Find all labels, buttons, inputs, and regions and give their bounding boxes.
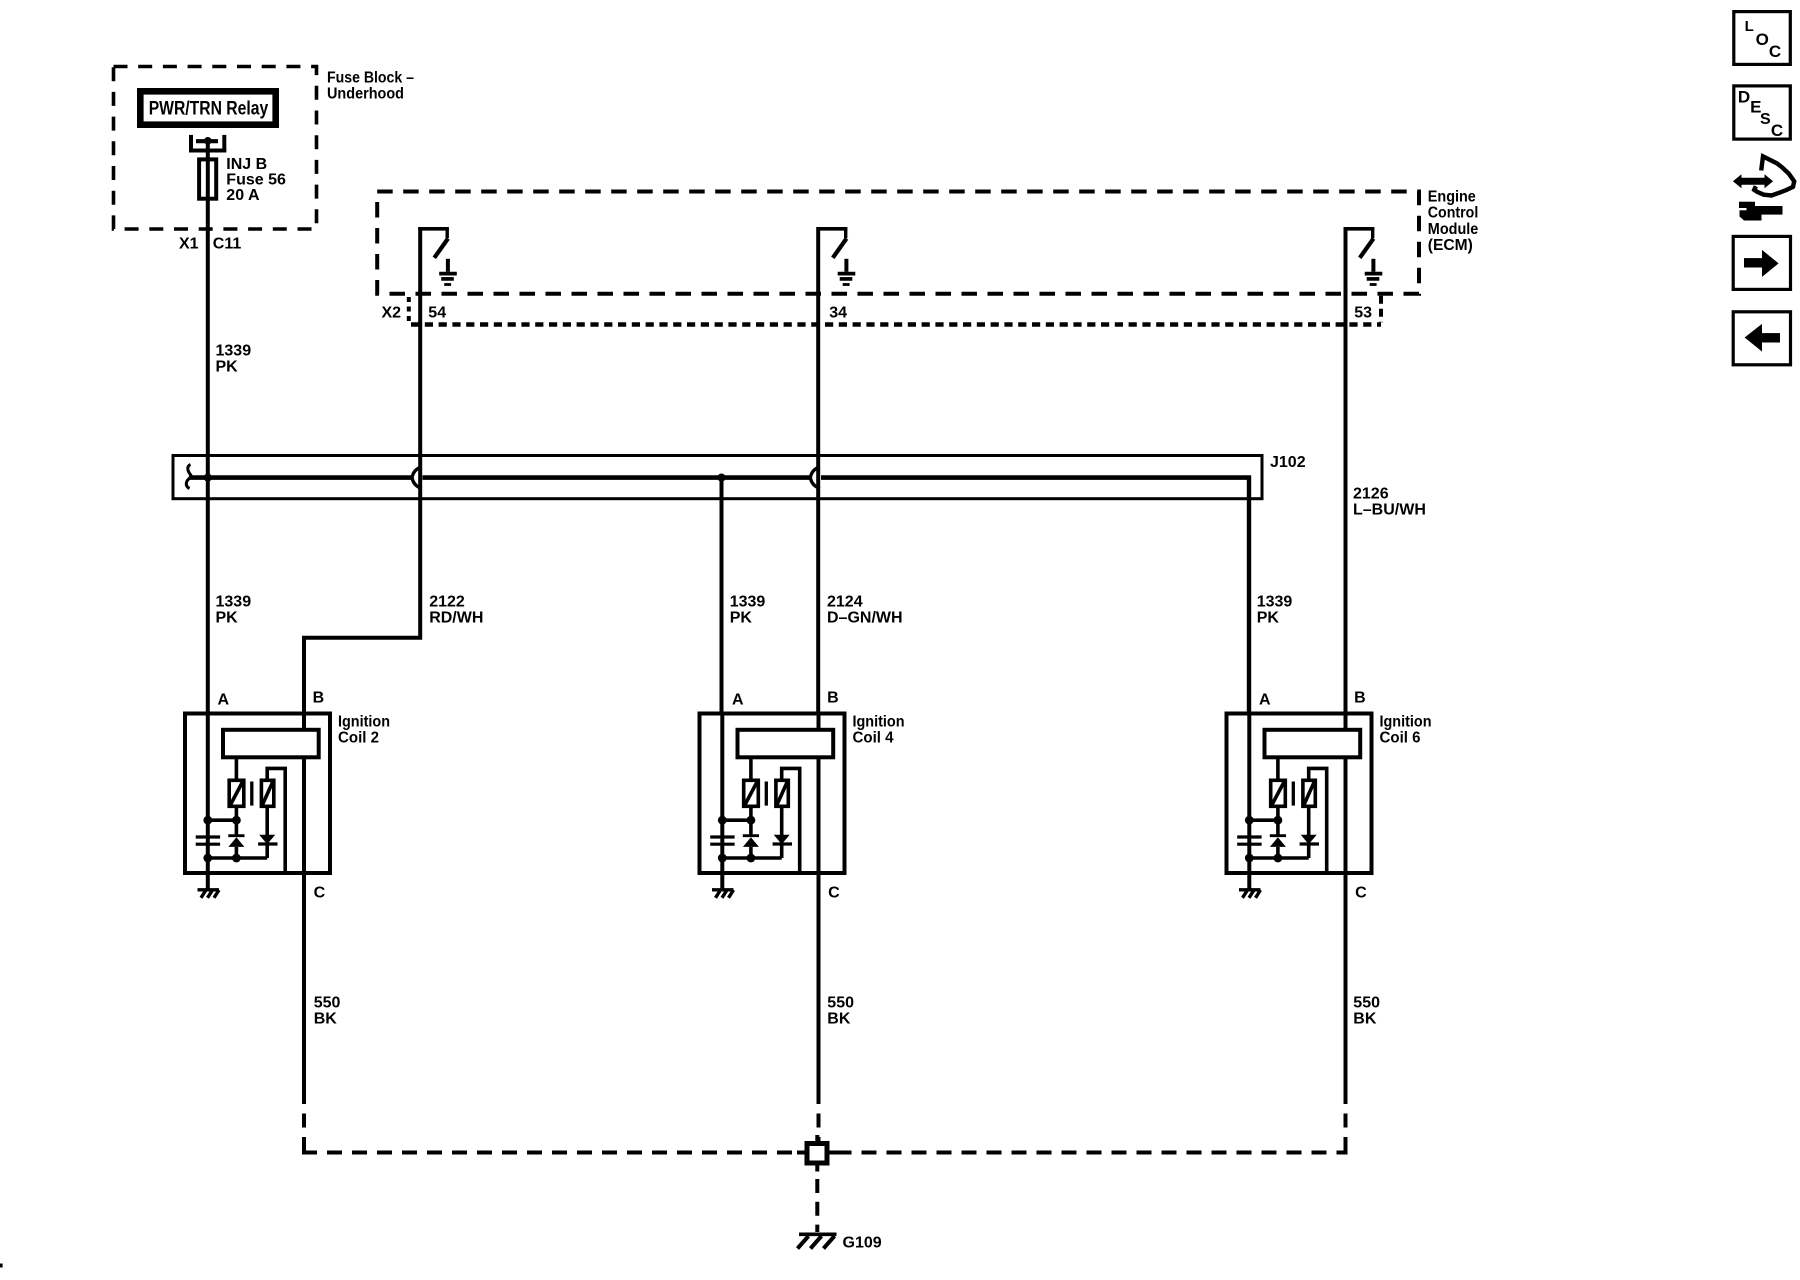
wire 2124 D-GN/WH from ECM pin 34 to coil 4 pin B (816, 227, 820, 713)
svg-text:INJ B: INJ B (226, 156, 267, 173)
wire 550 BK label (coil 4) (827, 995, 854, 1028)
coil 6 pin labels A B C (1259, 689, 1367, 901)
coil 4 primary feed wire (749, 759, 753, 780)
splice bus wire 1339 PK inside J102 (189, 475, 1251, 480)
dashed wire from splice to ground G109 (815, 1179, 819, 1232)
coil 6 junction dots on bottom link (1245, 854, 1254, 863)
svg-text:G109: G109 (843, 1235, 882, 1252)
svg-text:2124: 2124 (827, 594, 863, 611)
wire 1339 PK branch to coil 4 pin A (720, 479, 724, 713)
svg-text:20 A: 20 A (226, 187, 260, 204)
wire label 2124 D-GN/WH (827, 594, 903, 627)
coil 6 secondary winding (1303, 780, 1315, 806)
fuse block box (Fuse Block - Underhood, dashed) (114, 67, 317, 230)
svg-text:1339: 1339 (730, 594, 766, 611)
svg-text:550: 550 (314, 995, 341, 1012)
svg-text:A: A (732, 691, 744, 708)
coil 2 core (250, 782, 253, 806)
svg-text:Ignition: Ignition (338, 714, 390, 731)
icon curved harness outline (1754, 156, 1794, 195)
coil 2 junction dots on link (203, 816, 212, 825)
wire label 1339 PK (upper) (216, 343, 252, 376)
svg-text:A: A (1259, 691, 1271, 708)
svg-text:PK: PK (730, 610, 753, 627)
ECM label Engine Control Module (ECM) (1428, 188, 1479, 254)
coil 2 pin B/C wire through module (302, 712, 306, 1091)
crimp splice chevron at wire 2122 (412, 467, 422, 489)
svg-text:O: O (1756, 30, 1769, 49)
coil 4 primary bottom lead (749, 806, 753, 836)
svg-text:PK: PK (1257, 610, 1280, 627)
svg-text:J102: J102 (1270, 454, 1306, 471)
fuse block label (327, 69, 414, 102)
fuse F56 (INJ B, 20 A) (199, 159, 216, 198)
svg-text:Fuse 56: Fuse 56 (226, 172, 286, 189)
coil 2 primary winding (229, 780, 244, 806)
svg-text:Ignition: Ignition (1380, 714, 1432, 731)
svg-text:C: C (1355, 884, 1367, 901)
connector pin labels X2 / 54 / 34 / 53 (382, 304, 1373, 321)
coil 4 diode D2 (down) (773, 806, 792, 858)
sidebar LOC button (1734, 12, 1791, 65)
coil 4 control module block (738, 730, 834, 758)
svg-text:53: 53 (1354, 304, 1372, 321)
coil 6 bottom link (1249, 856, 1308, 860)
svg-text:BK: BK (1353, 1011, 1377, 1028)
svg-text:L: L (1745, 18, 1754, 35)
ground bus dashed wire (right of splice) (837, 1151, 1348, 1155)
svg-text:C: C (314, 884, 326, 901)
svg-text:54: 54 (428, 304, 446, 321)
svg-text:S: S (1760, 111, 1771, 128)
wire 550 BK dashed drop (coil 4, into splice) (817, 1090, 821, 1141)
svg-text:34: 34 (829, 304, 847, 321)
sidebar DESC button (1734, 86, 1791, 140)
svg-text:550: 550 (1353, 995, 1380, 1012)
coil 4 diode D1 (up) (743, 836, 759, 858)
svg-text:Coil 2: Coil 2 (338, 729, 379, 746)
wire label 1339 PK (coil 6 branch) (1257, 594, 1293, 627)
svg-text:2126: 2126 (1353, 485, 1389, 502)
coil 6 pin A internal wire to ground (1247, 712, 1251, 889)
coil 6 primary bottom lead (1276, 806, 1280, 836)
coil 2 junction dots on bottom link (203, 854, 212, 863)
wire label 2126 L-BU/WH (1353, 485, 1426, 518)
svg-text:550: 550 (827, 995, 854, 1012)
svg-text:Fuse Block –: Fuse Block – (327, 69, 414, 86)
coil 2 bottom link (208, 856, 267, 860)
coil 2 secondary HT lead (267, 768, 285, 871)
wire label 2122 RD/WH (429, 594, 483, 627)
svg-text:BK: BK (314, 1011, 338, 1028)
sidebar forward arrow button (1733, 236, 1790, 289)
ignition coil 6 assembly (1227, 689, 1432, 1090)
svg-text:Ignition: Ignition (853, 714, 905, 731)
coil 2 capacitor (196, 837, 220, 844)
coil 2 primary feed wire (235, 759, 239, 780)
svg-text:C11: C11 (213, 236, 242, 253)
coil 6 control module block (1265, 730, 1361, 758)
coil 4 name label (853, 714, 905, 747)
relay K1 PWR/TRN Relay box (140, 91, 275, 124)
svg-text:D: D (1738, 87, 1750, 106)
svg-text:D–GN/WH: D–GN/WH (827, 610, 903, 627)
splice junction dot (wire 1339 PK from fuse) (204, 474, 212, 482)
splice block J102 outline (173, 456, 1262, 499)
svg-text:PK: PK (216, 359, 239, 376)
svg-text:Module: Module (1428, 221, 1479, 238)
coil 6 junction dots on link (1245, 816, 1254, 825)
ECM low-side driver for pin 53 (1344, 229, 1383, 285)
sidebar harness/tools icon (1733, 156, 1794, 220)
svg-text:PK: PK (216, 610, 239, 627)
coil 2 case ground (198, 890, 220, 898)
coil 4 bottom link (722, 856, 781, 860)
icon wrench (1739, 202, 1783, 221)
ECM box (Engine Control Module, dashed) (377, 192, 1419, 294)
coil 6 primary feed wire (1276, 759, 1280, 780)
wire label 1339 PK (coil 2 branch) (216, 594, 252, 627)
ECM low-side driver for pin 54 (418, 229, 457, 285)
svg-text:Underhood: Underhood (327, 86, 404, 103)
svg-text:1339: 1339 (1257, 594, 1293, 611)
svg-text:L–BU/WH: L–BU/WH (1353, 501, 1426, 518)
coil 2 diode D2 (down) (258, 806, 277, 858)
svg-text:Coil 6: Coil 6 (1380, 729, 1421, 746)
svg-text:PWR/TRN Relay: PWR/TRN Relay (149, 97, 269, 119)
coil 2 diode D1 (up) (228, 836, 244, 858)
splice bus left end hook (186, 465, 191, 489)
svg-text:BK: BK (827, 1011, 851, 1028)
svg-text:C: C (1769, 42, 1781, 61)
svg-text:1339: 1339 (216, 594, 252, 611)
coil 4 pin B/C wire through module (817, 712, 821, 1091)
coil 2 primary bottom lead (235, 806, 239, 836)
svg-text:C: C (1771, 121, 1783, 140)
ECM connector X2 dotted boundary (409, 296, 1381, 325)
coil 4 case (700, 714, 845, 874)
ECM low-side driver for pin 34 (817, 229, 856, 285)
connector labels X1 | C11 (179, 236, 241, 253)
ignition coil 4 assembly (700, 689, 905, 1090)
coil 4 junction dots on bottom link (718, 854, 727, 863)
sidebar back arrow button (1733, 312, 1790, 365)
icon double arrow (1733, 174, 1773, 188)
coil 6 case ground (1239, 890, 1261, 898)
coil 6 diode D2 (down) (1300, 806, 1319, 858)
svg-text:X1: X1 (179, 236, 199, 253)
coil 6 pin B/C wire through module (1344, 712, 1348, 1091)
coil 6 secondary HT lead (1309, 768, 1327, 871)
svg-text:Engine: Engine (1428, 188, 1476, 205)
wire 1339 PK bus turn-down to coil 6 pin A (1247, 476, 1251, 713)
coil 4 core (765, 782, 768, 806)
svg-text:Coil 4: Coil 4 (853, 729, 894, 746)
coil 2 primary-to-pinA link (208, 818, 237, 822)
svg-text:A: A (218, 691, 230, 708)
svg-text:(ECM): (ECM) (1428, 237, 1473, 254)
coil 4 primary winding (744, 780, 759, 806)
wire 2122 RD/WH from ECM pin 54 to coil 2 pin B (304, 227, 420, 713)
coil 4 capacitor (710, 837, 734, 844)
coil 2 name label (338, 714, 390, 747)
relay output terminal bracket (189, 135, 226, 151)
coil 4 pin labels A B C (732, 689, 840, 901)
coil 6 primary winding (1271, 780, 1286, 806)
svg-text:B: B (313, 689, 325, 706)
ignition coil 2 assembly (185, 689, 390, 1090)
svg-text:2122: 2122 (429, 594, 465, 611)
wire 550 BK label (coil 6) (1353, 995, 1380, 1028)
page edge speck (0, 1264, 3, 1268)
svg-text:B: B (827, 689, 839, 706)
coil 6 core (1292, 782, 1295, 806)
wire 550 BK dashed drop (coil 2) (302, 1090, 306, 1153)
wire label 1339 PK (coil 4 branch) (730, 594, 766, 627)
coil 4 pin A internal wire to ground (720, 712, 724, 889)
svg-text:RD/WH: RD/WH (429, 610, 483, 627)
coil 4 secondary winding (776, 780, 788, 806)
coil 4 junction dots on link (718, 816, 727, 825)
crimp splice chevron at wire 2124 (810, 467, 820, 489)
coil 6 primary-to-pinA link (1249, 818, 1278, 822)
coil 2 control module block (223, 730, 319, 758)
coil 2 secondary winding (261, 780, 273, 806)
svg-text:B: B (1354, 689, 1366, 706)
coil 4 case ground (712, 890, 734, 898)
svg-text:1339: 1339 (216, 343, 252, 360)
svg-text:X2: X2 (382, 304, 402, 321)
relay contact blade and junction dot (196, 137, 218, 145)
coil 6 case (1227, 714, 1372, 874)
coil 6 name label (1380, 714, 1432, 747)
coil 2 pin labels A B C (218, 689, 326, 901)
splice junction dot (branch to coil 4 pin A) (717, 474, 725, 482)
wire 550 BK label (coil 2) (314, 995, 341, 1028)
wire 550 BK dashed drop (coil 6) (1344, 1090, 1348, 1153)
coil 2 case (185, 714, 330, 874)
wire: fuse output through connector X1 C11 down to splice J102 (1339 PK) (206, 142, 210, 713)
coil 2 pin A internal wire to ground (206, 712, 210, 889)
coil 4 primary-to-pinA link (722, 818, 751, 822)
fuse label INJ B / Fuse 56 / 20 A (226, 156, 286, 204)
wire 2126 L-BU/WH from ECM pin 53 to coil 6 pin B (1344, 227, 1348, 713)
coil 6 capacitor (1237, 837, 1261, 844)
ground splice junction block (797, 1135, 837, 1172)
coil 4 secondary HT lead (782, 768, 800, 871)
ground bus dashed wire (left of splice) (302, 1151, 797, 1155)
ground G109 symbol (798, 1234, 837, 1248)
coil 6 diode D1 (up) (1270, 836, 1286, 858)
svg-text:C: C (828, 884, 840, 901)
svg-text:Control: Control (1428, 205, 1479, 222)
